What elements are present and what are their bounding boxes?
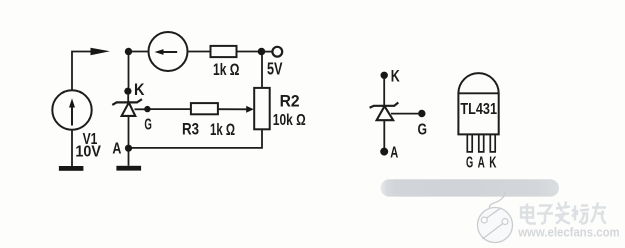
svg-text:5V: 5V (267, 59, 283, 79)
wire K dot to TL431 cathode bar (127, 95, 129, 103)
svg-text:G: G (144, 117, 152, 134)
svg-text:K: K (134, 81, 145, 99)
svg-text:A: A (112, 140, 121, 157)
svg-text:K: K (391, 68, 400, 86)
svg-text:A: A (390, 145, 398, 162)
ground bar under V1 (59, 166, 84, 171)
meter arrow pointing left (162, 51, 178, 53)
watermark chinese glyph 5 (591, 203, 606, 224)
wire R3 to R2 wiper (218, 108, 247, 110)
node K dot (124, 88, 131, 95)
watermark logo node circle right (502, 219, 508, 225)
current meter U1 circle (149, 32, 188, 71)
wire V1 bottom to ground (71, 130, 73, 166)
svg-text:R3: R3 (182, 120, 199, 138)
watermark chinese glyph 2 (537, 206, 553, 224)
watermark chinese glyph 4 (572, 206, 589, 224)
watermark logo hook (489, 192, 505, 209)
terminal 5V open circle (272, 47, 282, 57)
svg-text:R2: R2 (280, 92, 300, 111)
watermark chinese glyph 3 (555, 202, 570, 224)
svg-text:K: K (489, 154, 496, 171)
TL431 shunt regulator symbol cathode bar (112, 99, 142, 105)
potentiometer R2 body (254, 88, 270, 129)
G terminal dot (418, 110, 425, 117)
TO-92 lead 1 (467, 135, 472, 152)
wire G to R3 (150, 108, 191, 110)
node G dot (144, 106, 150, 112)
A terminal dot (380, 148, 388, 156)
wire K to symbol (383, 79, 385, 106)
wire A dot to ground (128, 152, 130, 166)
node A dot (125, 145, 132, 152)
ground bar under A (116, 166, 141, 171)
wire 5V node down to R2 top (261, 55, 263, 88)
watermark chinese glyph 1 (521, 204, 536, 224)
svg-text:A: A (478, 154, 485, 171)
svg-text:TL431: TL431 (460, 101, 497, 118)
node junction top of K column (125, 48, 132, 55)
wire triangle base down to A (128, 116, 130, 148)
current direction arrow on V1 top wire (91, 48, 111, 56)
resistor R3 body (191, 103, 218, 114)
watermark logo link line lower (482, 224, 503, 239)
wire node to 5V terminal (262, 51, 273, 53)
TL431 symbol triangle (122, 103, 136, 116)
voltage source V1 circle (52, 90, 91, 129)
V1 internal up arrow (71, 104, 73, 126)
TO-92 flange line (458, 92, 498, 94)
TO-92 lead 3 (490, 135, 495, 152)
svg-text:10V: 10V (75, 143, 101, 160)
standalone TL431 cathode bar (370, 103, 399, 108)
svg-text:1k Ω: 1k Ω (213, 61, 240, 79)
TL431 gate wire (135, 108, 145, 110)
wire from V1 top to arrow (72, 52, 92, 91)
resistor 1k ohm (211, 46, 237, 57)
watermark logo link line upper (487, 208, 501, 218)
standalone TL431 gate wire (391, 113, 418, 115)
svg-text:10k Ω: 10k Ω (273, 112, 306, 129)
svg-text:G: G (418, 122, 428, 139)
wire junction down to K (128, 55, 130, 88)
node junction 5V (258, 48, 266, 56)
watermark logo big circle (478, 208, 513, 243)
R2 wiper arrow (246, 106, 254, 113)
svg-text:1k Ω: 1k Ω (210, 121, 235, 139)
svg-text:www.elecfans.com: www.elecfans.com (517, 225, 619, 240)
wire meter to resistor (188, 51, 211, 53)
watermark logo node circle left (481, 217, 487, 223)
wire resistor to 5V node (237, 51, 259, 53)
TO-92 package outline (458, 73, 498, 134)
standalone TL431 K terminal dot (381, 72, 388, 79)
standalone TL431 triangle (377, 106, 394, 120)
wire junction to meter circle (129, 51, 149, 53)
wire R2 bottom to A line (131, 129, 262, 148)
wire triangle to A terminal (383, 120, 385, 148)
svg-text:G: G (466, 154, 473, 171)
TO-92 lead 2 (479, 135, 484, 152)
